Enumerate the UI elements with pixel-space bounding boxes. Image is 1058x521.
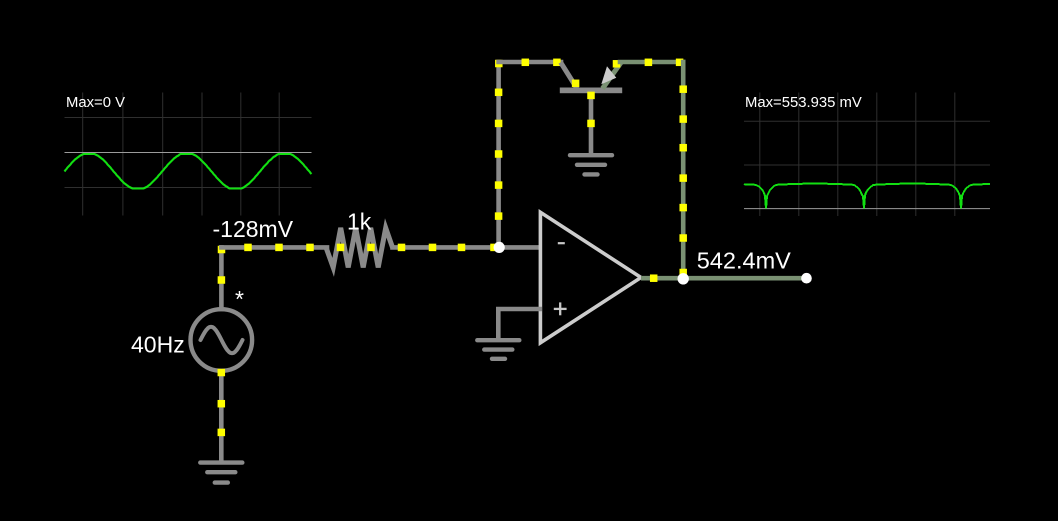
wire: transistor base to ground xyxy=(587,92,595,154)
svg-text:Max=0 V: Max=0 V xyxy=(66,95,125,111)
wire: source top to -128mV corner node xyxy=(218,246,226,309)
transistor Q1 PNP (collector left, emitter right, base down to ground) xyxy=(560,60,622,93)
ground: op-amp non-inverting input xyxy=(477,340,519,359)
svg-text:542.4mV: 542.4mV xyxy=(697,248,791,274)
wire: top horizontal to transistor collector xyxy=(499,59,561,67)
scope 2 trace (rectified log output waveform) xyxy=(744,184,990,209)
wire: transistor emitter to top right corner xyxy=(620,59,683,67)
wire: source bottom to ground xyxy=(218,369,226,461)
scope 1 grid (input waveform display) xyxy=(65,93,312,216)
label: source frequency 40Hz xyxy=(131,332,185,358)
label: node voltage -128mV xyxy=(213,216,294,242)
wire: output junction to output terminal xyxy=(683,276,806,281)
wire: feedback right vertical (top corner down to output junction) xyxy=(679,62,687,278)
ground: transistor base xyxy=(570,155,612,174)
wire: op-amp non-inverting input to ground xyxy=(498,309,542,338)
svg-text:40Hz: 40Hz xyxy=(131,332,185,358)
label: output voltage 542.4mV xyxy=(697,248,791,274)
svg-text:*: * xyxy=(235,286,244,312)
wire: -128mV node to resistor xyxy=(221,244,327,252)
label: source polarity mark * xyxy=(235,286,244,312)
label: resistor value 1k xyxy=(347,209,372,235)
wire: op-amp output to junction xyxy=(641,274,683,282)
scope 2 grid (output waveform display) xyxy=(744,93,990,217)
svg-text:-128mV: -128mV xyxy=(213,216,294,242)
svg-text:1k: 1k xyxy=(347,209,372,235)
op-amp U1 xyxy=(540,212,641,342)
svg-text:Max=553.935 mV: Max=553.935 mV xyxy=(745,95,862,111)
resistor R1 1k xyxy=(326,228,393,268)
node: inverting input junction xyxy=(494,242,505,253)
voltage source V1 (40Hz AC sine) xyxy=(191,309,253,371)
node: output junction xyxy=(678,273,689,284)
scope 2 label Max=553.935 mV xyxy=(745,95,862,111)
node: output terminal xyxy=(801,273,812,284)
wire: resistor to inverting input junction xyxy=(393,244,499,252)
ground: source negative terminal xyxy=(200,463,242,483)
scope 1 trace (input sine waveform) xyxy=(65,154,312,189)
scope 1 label Max=0 V xyxy=(66,95,125,111)
wire: junction to op-amp inverting input xyxy=(499,245,542,250)
wire: feedback left vertical (junction up to top corner) xyxy=(495,60,503,248)
